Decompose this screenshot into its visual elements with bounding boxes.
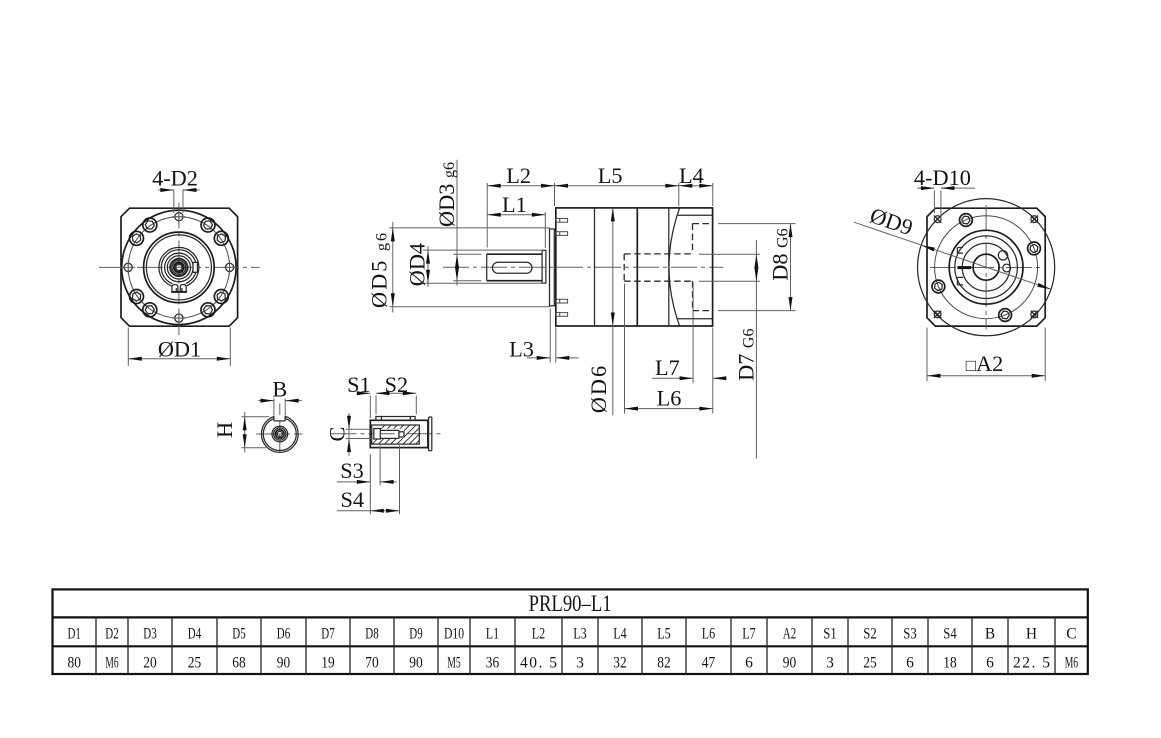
svg-text:22. 5: 22. 5 bbox=[1013, 654, 1050, 671]
side view adapter face top bbox=[677, 214, 713, 216]
rear corner hole 4 bbox=[1031, 311, 1038, 318]
dimension D3 bbox=[434, 160, 481, 286]
table value row bbox=[68, 654, 1079, 671]
front hex bolt 8 bbox=[214, 290, 228, 304]
side view body line 1 bbox=[594, 208, 596, 326]
svg-text:3: 3 bbox=[576, 654, 584, 671]
svg-text:D6: D6 bbox=[277, 626, 291, 643]
front view key rect bbox=[193, 262, 197, 272]
rear view flange square bbox=[927, 208, 1045, 326]
svg-text:70: 70 bbox=[365, 654, 379, 671]
svg-text:S1: S1 bbox=[347, 372, 371, 397]
front mounting hole 3 bbox=[121, 260, 135, 274]
rear view bore circle bbox=[973, 254, 999, 280]
svg-text:D7: D7 bbox=[321, 626, 335, 643]
svg-text:L5: L5 bbox=[598, 163, 623, 188]
svg-text:L5: L5 bbox=[657, 626, 671, 643]
dimension D5 bbox=[366, 222, 550, 313]
dimension D8 bbox=[718, 224, 796, 311]
svg-text:90: 90 bbox=[783, 654, 797, 671]
svg-text:4-D10: 4-D10 bbox=[914, 165, 971, 190]
svg-text:B: B bbox=[272, 377, 287, 402]
dimension D1 bbox=[128, 328, 230, 367]
dimension S3 bbox=[337, 445, 397, 514]
svg-text:6: 6 bbox=[906, 654, 914, 671]
rear view screw hole 2 bbox=[1003, 264, 1011, 272]
svg-text:L3: L3 bbox=[509, 336, 534, 361]
side view body outline bbox=[556, 208, 713, 326]
side view adapter face bottom bbox=[677, 318, 713, 320]
svg-text:S1: S1 bbox=[823, 626, 836, 643]
svg-text:L1: L1 bbox=[486, 626, 499, 643]
shaft end keyway backing bbox=[275, 415, 285, 421]
side view step D4 bbox=[542, 250, 546, 283]
shaft end circle 4 bbox=[274, 428, 286, 440]
svg-text:ØD1: ØD1 bbox=[158, 336, 201, 361]
dimension D9 bbox=[854, 203, 1051, 290]
shaft end circle 5 bbox=[276, 430, 285, 439]
side view body line 2 bbox=[636, 208, 638, 326]
rear hex bolt 3 bbox=[932, 280, 945, 293]
shaft end centerline v bbox=[279, 404, 281, 452]
svg-text:S3: S3 bbox=[340, 458, 364, 483]
front view outer circle bbox=[122, 210, 236, 324]
front mounting hole 1 bbox=[172, 210, 186, 224]
front tabs backing bbox=[172, 284, 186, 292]
svg-text:D8: D8 bbox=[365, 626, 379, 643]
front view circle r20 bbox=[159, 247, 199, 287]
svg-text:D1: D1 bbox=[68, 626, 81, 643]
svg-text:32: 32 bbox=[613, 654, 626, 671]
svg-text:ØD4: ØD4 bbox=[405, 243, 430, 286]
rear view clamp mark lower bbox=[957, 277, 963, 285]
key section inner box bbox=[372, 425, 420, 444]
svg-text:H: H bbox=[1026, 626, 1037, 643]
dimension D6 bbox=[586, 208, 615, 416]
front view shaft ring 3 bbox=[174, 263, 184, 273]
side view body line 3 bbox=[668, 208, 670, 326]
svg-text:S4: S4 bbox=[341, 487, 365, 512]
svg-text:6: 6 bbox=[986, 654, 994, 671]
svg-text:47: 47 bbox=[702, 654, 716, 671]
dimension B bbox=[258, 377, 302, 416]
front view hub circle bbox=[167, 256, 190, 279]
side view face hole 2 bbox=[556, 232, 568, 236]
side view face hole 3 bbox=[556, 299, 568, 303]
front mounting hole 2 bbox=[172, 311, 186, 325]
front hex bolt 5 bbox=[130, 290, 144, 304]
side view bell arc bbox=[669, 208, 680, 326]
front bottom tab base bbox=[171, 291, 187, 293]
dimension 4-D2 bbox=[152, 166, 200, 213]
front view circle r14.4 bbox=[165, 253, 194, 282]
dimensions S1 S2 bbox=[347, 372, 416, 418]
key section centerline bbox=[331, 433, 442, 435]
svg-text:18: 18 bbox=[943, 654, 957, 671]
dimension L7 bbox=[652, 283, 727, 414]
svg-text:D10: D10 bbox=[444, 626, 464, 643]
rear view centerline horizontal bbox=[930, 267, 1043, 269]
front view centerline horizontal bbox=[99, 266, 260, 268]
dimension L1 bbox=[487, 192, 545, 248]
svg-text:L6: L6 bbox=[657, 385, 682, 410]
front bottom tab left bbox=[172, 285, 178, 292]
rear corner hole 1 bbox=[934, 216, 941, 223]
front hex bolt 4 bbox=[130, 231, 144, 245]
svg-text:4-D2: 4-D2 bbox=[152, 166, 198, 191]
svg-text:82: 82 bbox=[657, 654, 670, 671]
svg-text:L7: L7 bbox=[655, 355, 680, 380]
svg-text:80: 80 bbox=[68, 654, 82, 671]
svg-text:L2: L2 bbox=[532, 626, 545, 643]
svg-text:D2: D2 bbox=[105, 626, 118, 643]
svg-text:D4: D4 bbox=[188, 626, 202, 643]
dimension 4-D10 bbox=[914, 165, 975, 219]
svg-text:C: C bbox=[1066, 626, 1076, 643]
svg-text:6: 6 bbox=[745, 654, 753, 671]
rear view clamp mark upper bbox=[957, 248, 963, 254]
svg-text:S2: S2 bbox=[863, 626, 876, 643]
side view centerline bbox=[443, 266, 723, 268]
dimension D7 bbox=[699, 240, 760, 459]
rear view circle D9 bbox=[918, 199, 1055, 336]
svg-text:S2: S2 bbox=[385, 372, 409, 397]
svg-text:M5: M5 bbox=[447, 654, 461, 671]
front tab notch left bbox=[175, 288, 177, 291]
svg-text:25: 25 bbox=[863, 654, 877, 671]
front view shaft ring 4 bbox=[176, 264, 182, 270]
shaft end circle 3 bbox=[272, 426, 288, 442]
rear view screw hole 1 bbox=[998, 251, 1007, 260]
svg-text:L3: L3 bbox=[573, 626, 587, 643]
key section block bbox=[370, 420, 428, 447]
shaft end centerline h bbox=[256, 433, 303, 435]
svg-text:L7: L7 bbox=[742, 626, 756, 643]
rear view circle r36.9 bbox=[949, 230, 1023, 304]
svg-text:M6: M6 bbox=[105, 654, 119, 671]
front view shaft ring 1 bbox=[170, 259, 187, 276]
side view shaft D3 bbox=[487, 254, 542, 281]
side view flange disc bbox=[550, 229, 555, 306]
svg-text:90: 90 bbox=[409, 654, 423, 671]
rear view circle r23.9 bbox=[962, 243, 1010, 291]
svg-text:L6: L6 bbox=[702, 626, 716, 643]
rear view bolt circle bbox=[935, 216, 1038, 319]
front view centerline vertical bbox=[178, 203, 180, 336]
svg-text:L2: L2 bbox=[506, 163, 531, 188]
side view keyway slot bbox=[492, 262, 532, 273]
shaft end circle 6 bbox=[277, 431, 282, 436]
svg-text:D5: D5 bbox=[232, 626, 246, 643]
svg-text:C: C bbox=[324, 427, 349, 442]
side view face hole 1 bbox=[556, 219, 568, 223]
svg-text:M6: M6 bbox=[1065, 654, 1079, 671]
front bottom tab right bbox=[180, 285, 186, 292]
rear hex bolt 1 bbox=[1028, 242, 1041, 255]
rear corner hole 3 bbox=[934, 311, 941, 318]
svg-text:L4: L4 bbox=[613, 626, 627, 643]
front view shaft ring 2 bbox=[172, 261, 186, 275]
svg-text:H: H bbox=[212, 422, 237, 438]
hidden bore D7 bbox=[624, 254, 692, 281]
front view boss circle bbox=[144, 232, 215, 303]
front hex bolt 3 bbox=[143, 218, 157, 232]
svg-text:S3: S3 bbox=[903, 626, 917, 643]
svg-text:D9: D9 bbox=[409, 626, 423, 643]
svg-text:36: 36 bbox=[486, 654, 500, 671]
dimension L6 bbox=[625, 284, 713, 414]
front tab notch right bbox=[181, 288, 183, 291]
svg-text:3: 3 bbox=[826, 654, 834, 671]
svg-text:20: 20 bbox=[143, 654, 157, 671]
hidden recess D8 bbox=[693, 224, 713, 311]
dimension D4 bbox=[405, 243, 545, 287]
front view flange square bbox=[121, 208, 238, 326]
front view boss inner circle bbox=[146, 235, 211, 300]
dimension C bbox=[324, 413, 374, 456]
key section disc bbox=[429, 417, 432, 451]
svg-text:PRL90–L1: PRL90–L1 bbox=[529, 591, 612, 616]
shaft end keyway bbox=[274, 416, 285, 421]
side view face hole 4 bbox=[556, 313, 568, 317]
front hex bolt 2 bbox=[201, 218, 215, 232]
rear corner hole 2 bbox=[1031, 216, 1038, 223]
svg-text:19: 19 bbox=[321, 654, 335, 671]
rear hex bolt 4 bbox=[999, 309, 1012, 322]
front view circle r17.6 bbox=[161, 250, 196, 285]
dimension S4 bbox=[337, 445, 400, 514]
svg-text:L4: L4 bbox=[679, 163, 704, 188]
front hex bolt 7 bbox=[201, 303, 215, 317]
svg-text:D3: D3 bbox=[143, 626, 157, 643]
svg-text:A2: A2 bbox=[783, 626, 796, 643]
dimension L3 bbox=[509, 309, 578, 363]
dimension A2 bbox=[927, 328, 1045, 382]
svg-text:ØD6: ØD6 bbox=[586, 364, 611, 413]
svg-text:B: B bbox=[985, 626, 995, 643]
front hex bolt 6 bbox=[143, 303, 157, 317]
front view bolt circle bbox=[128, 217, 229, 318]
front mounting hole 4 bbox=[223, 260, 237, 274]
key section set screw bbox=[374, 429, 404, 440]
front hex bolt 1 bbox=[214, 231, 228, 245]
svg-text:L1: L1 bbox=[502, 192, 527, 217]
svg-text:25: 25 bbox=[188, 654, 202, 671]
rear view clamp slot bar bbox=[957, 266, 971, 269]
dimensions L2 L5 L4 bbox=[487, 163, 713, 248]
shaft end circle outer bbox=[261, 416, 298, 453]
rear view circle r31.3 bbox=[955, 236, 1018, 299]
shaft end circle 2 bbox=[263, 418, 296, 451]
svg-text:S4: S4 bbox=[943, 626, 957, 643]
rear view centerline vertical bbox=[985, 205, 987, 330]
table grid bbox=[53, 589, 1088, 674]
svg-text:68: 68 bbox=[232, 654, 246, 671]
dimension H bbox=[212, 412, 270, 453]
rear hex bolt 2 bbox=[960, 214, 973, 227]
svg-text:90: 90 bbox=[277, 654, 291, 671]
key section key tab bbox=[376, 417, 415, 421]
table header row bbox=[68, 626, 1077, 643]
svg-text:40. 5: 40. 5 bbox=[520, 654, 557, 671]
